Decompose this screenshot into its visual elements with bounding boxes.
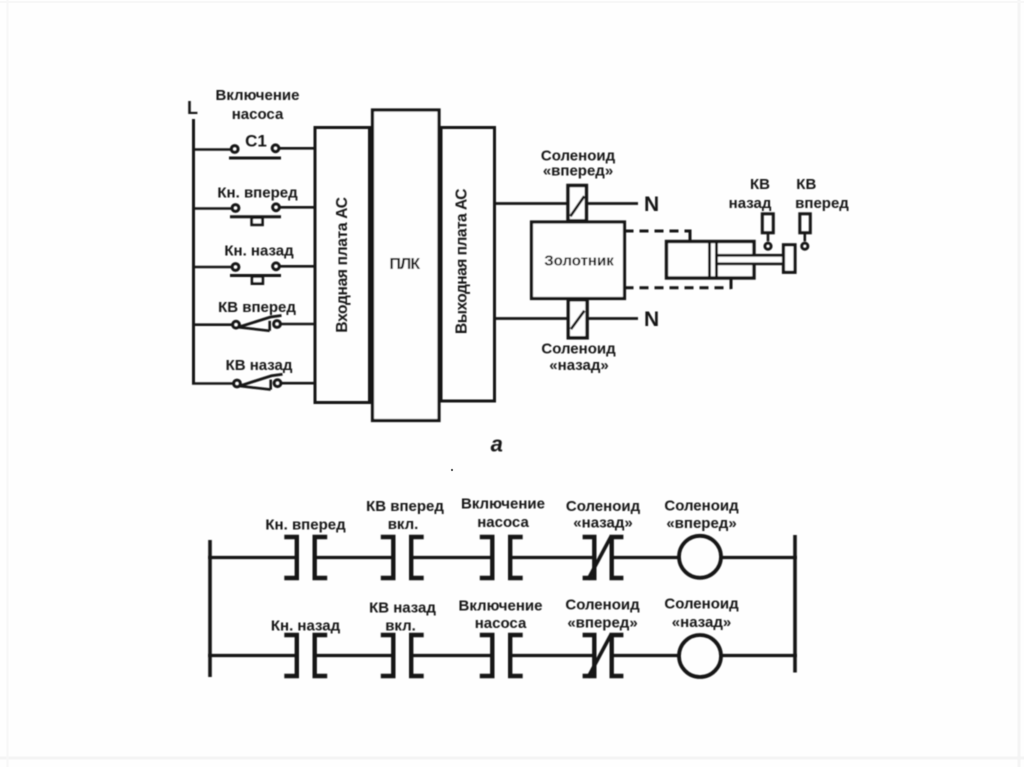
piston rod <box>717 255 784 263</box>
svg-text:L: L <box>187 98 198 118</box>
svg-text:С1: С1 <box>245 132 267 151</box>
wire row2 right <box>280 206 314 209</box>
svg-text:Соленоид: Соленоид <box>565 597 640 614</box>
contact КВ назад вкл. (rung2) <box>381 635 394 676</box>
ladder left rail <box>208 540 212 677</box>
wire row1 right <box>280 147 315 150</box>
wire output row1 <box>495 202 639 205</box>
svg-text:Выходная плата АС: Выходная плата АС <box>454 189 471 334</box>
wire row1 left <box>192 148 231 151</box>
limit switch КВ назад circles and lever <box>234 380 241 387</box>
contact Включение насоса (rung1) <box>480 537 493 578</box>
NC contact Соленоид «вперед» (rung2) <box>583 635 595 676</box>
svg-text:Золотник: Золотник <box>544 253 614 270</box>
limit switch КВ вперед circles and lever <box>233 321 240 328</box>
svg-text:a: a <box>491 432 503 457</box>
svg-text:«назад»: «назад» <box>672 614 731 631</box>
svg-text:Кн. вперед: Кн. вперед <box>217 185 298 202</box>
contact Кн. вперед (rung1) <box>284 537 297 578</box>
coil Соленоид «вперед» (rung1) <box>679 536 721 578</box>
svg-text:N: N <box>644 308 659 331</box>
svg-text:назад: назад <box>729 195 772 212</box>
svg-text:КВ вперед: КВ вперед <box>366 498 444 515</box>
svg-text:Включение: Включение <box>216 87 300 104</box>
coil Соленоид «назад» (rung2) <box>679 635 721 677</box>
output board Выходная плата АС <box>441 128 495 402</box>
svg-text:насоса: насоса <box>232 106 284 123</box>
stray speck <box>451 469 453 471</box>
contact Включение насоса (rung2) <box>480 635 493 676</box>
svg-text:Соленоид: Соленоид <box>566 498 641 515</box>
contact C1 terminal circles and bar <box>231 146 238 153</box>
svg-text:Включение: Включение <box>459 598 543 615</box>
wire row3 right <box>280 265 314 268</box>
svg-text:Входная плата АС: Входная плата АС <box>334 197 351 332</box>
solenoid backward (rect with slash) <box>568 300 587 338</box>
svg-text:«назад»: «назад» <box>549 357 608 374</box>
dashed link top <box>625 230 691 233</box>
page edge shading <box>0 757 1024 760</box>
svg-text:Включение: Включение <box>461 496 545 513</box>
svg-text:КВ назад: КВ назад <box>226 357 293 374</box>
svg-text:КВ вперед: КВ вперед <box>218 299 296 316</box>
contact КВ вперед вкл. (rung1) <box>381 537 394 578</box>
pushbutton Кн. назад circles, bar, actuator <box>232 264 239 271</box>
svg-text:вкл.: вкл. <box>385 618 416 635</box>
ladder right rail <box>793 535 797 673</box>
svg-text:насоса: насоса <box>477 514 529 531</box>
svg-text:Кн. назад: Кн. назад <box>224 243 294 260</box>
limit switch sensor КВ вперед <box>800 214 811 233</box>
svg-text:«назад»: «назад» <box>573 515 632 532</box>
solenoid forward (rect with slash) <box>568 186 586 221</box>
dashed link bottom <box>625 286 732 289</box>
pushbutton Кн. вперед circles, bar, actuator <box>232 205 239 212</box>
svg-text:Соленоид: Соленоид <box>664 596 739 613</box>
svg-text:ПЛК: ПЛК <box>389 256 420 273</box>
svg-text:Соленоид: Соленоид <box>541 341 616 358</box>
rung 2 wire segments <box>208 654 297 657</box>
rod head <box>784 245 796 272</box>
svg-text:насоса: насоса <box>475 615 527 632</box>
wire row5 right <box>282 382 315 385</box>
svg-text:«вперед»: «вперед» <box>543 163 613 180</box>
svg-text:КВ: КВ <box>750 176 770 193</box>
input board Входная плата АС <box>315 128 370 403</box>
svg-text:«вперед»: «вперед» <box>567 615 637 632</box>
svg-text:N: N <box>644 193 659 216</box>
wire row2 left <box>192 207 231 210</box>
svg-text:КВ назад: КВ назад <box>369 600 436 617</box>
PLC box ПЛК <box>373 110 440 421</box>
piston <box>708 242 711 279</box>
svg-text:вперед: вперед <box>795 195 849 212</box>
wire row5 left <box>192 382 233 385</box>
wire row4 right <box>281 323 314 326</box>
svg-text:Кн. вперед: Кн. вперед <box>265 517 346 534</box>
NC contact Соленоид «назад» (rung1) <box>583 537 595 578</box>
svg-text:вкл.: вкл. <box>388 516 419 533</box>
wire L rail vertical <box>192 119 195 385</box>
rung 1 wire segments <box>208 556 297 559</box>
cylinder body <box>667 242 755 279</box>
valve box Золотник <box>532 222 625 299</box>
wire row3 left <box>192 266 231 269</box>
wire output row2 <box>495 317 639 320</box>
svg-text:Соленоид: Соленоид <box>664 498 739 515</box>
svg-text:КВ: КВ <box>796 176 816 193</box>
limit switch sensor КВ назад <box>762 214 773 233</box>
contact Кн. назад (rung2) <box>284 635 297 676</box>
svg-text:«вперед»: «вперед» <box>666 515 736 532</box>
wire row4 left <box>192 323 232 326</box>
svg-text:Кн. назад: Кн. назад <box>271 618 341 635</box>
